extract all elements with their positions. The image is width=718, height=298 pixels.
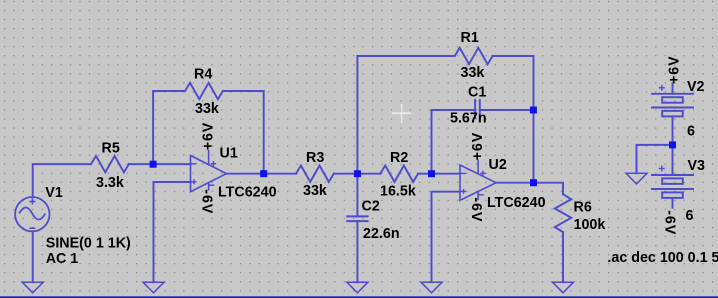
capacitor C1 [474, 100, 476, 118]
U1 non-inverting input marker [192, 181, 197, 183]
wire R2 to node D [418, 173, 431, 175]
svg-text:U1: U1 [220, 146, 238, 162]
ground V1 [22, 173, 647, 292]
svg-text:16.5k: 16.5k [380, 183, 416, 199]
wire feedback column C1 node to U2 output node E [533, 110, 535, 183]
resistor R1 [455, 48, 493, 64]
svg-text:R4: R4 [194, 67, 212, 83]
resistor R5 [91, 156, 129, 172]
svg-text:AC 1: AC 1 [46, 251, 79, 267]
V1 plus marker [29, 199, 35, 229]
wire R1 left leg from node C [357, 56, 454, 174]
resistor R3 [296, 166, 334, 182]
bottom window border [0, 296, 718, 298]
voltage source V1 [15, 197, 49, 231]
wire V1 bottom lead to ground [32, 231, 34, 282]
svg-text:V3: V3 [688, 158, 706, 174]
svg-text:3.3k: 3.3k [96, 175, 124, 191]
ground supply midpoint [626, 173, 647, 184]
svg-text:C1: C1 [468, 85, 486, 101]
resistor R6 [555, 194, 571, 232]
wire U1 output to node B [227, 173, 264, 175]
wire R3 to node C [334, 173, 358, 175]
svg-text:6: 6 [687, 123, 695, 139]
svg-text:V2: V2 [687, 79, 705, 95]
junction node A [150, 107, 676, 187]
junction node E [530, 179, 537, 186]
junction node C [354, 170, 361, 177]
battery V3 [652, 174, 693, 176]
U2 positive rail marker [480, 172, 485, 174]
wire node C to R2 [357, 173, 380, 175]
wire R4 left leg [153, 91, 185, 164]
wire R1 right leg down feedback column [493, 56, 534, 110]
battery V2 [652, 93, 693, 95]
U2 non-inverting input marker [461, 190, 466, 192]
ground U1 non-inverting [143, 282, 164, 293]
wire node F to midpoint ground [637, 145, 673, 173]
wire node F to V3 plus [672, 145, 674, 175]
svg-text:SINE(0 1 1K): SINE(0 1 1K) [46, 236, 131, 252]
wire V1 top lead to R5 [33, 164, 91, 197]
wire V2 top pin [672, 84, 674, 94]
junction node D [428, 170, 435, 177]
U2 negative rail marker [478, 194, 483, 196]
svg-text:R3: R3 [306, 150, 324, 166]
resistor R4 [185, 83, 223, 99]
svg-text:U2: U2 [489, 157, 507, 173]
svg-text:LTC6240: LTC6240 [218, 185, 277, 201]
wire node A to U1 inverting input [153, 163, 190, 165]
wire node C down to C2 [356, 174, 358, 217]
junction node B [260, 170, 267, 177]
ground R6 [553, 282, 574, 293]
wire R6 to ground [562, 232, 564, 282]
wire U1 non-inverting input to ground [154, 182, 191, 282]
U1 positive rail marker [211, 163, 216, 165]
wire node B to R3 [264, 173, 296, 175]
svg-text:LTC6240: LTC6240 [487, 195, 546, 211]
svg-text:100k: 100k [574, 217, 606, 233]
V1 minus marker [29, 227, 35, 229]
svg-text:R2: R2 [390, 150, 408, 166]
ground U2 non-inverting [421, 282, 442, 293]
svg-text:C2: C2 [362, 198, 380, 214]
U1 inverting input marker [192, 163, 197, 165]
svg-text:R5: R5 [102, 141, 120, 157]
wire node D up to C1 [432, 110, 476, 174]
svg-text:+6V: +6V [666, 55, 682, 84]
U2 inverting input marker [461, 172, 466, 174]
wire C1 to feedback column [480, 109, 534, 111]
svg-text:-6V: -6V [662, 210, 678, 235]
wire U2 non-inverting input to ground [432, 192, 461, 283]
svg-text:R1: R1 [461, 30, 479, 46]
junction node F [669, 141, 676, 148]
svg-text:+6V: +6V [201, 122, 217, 151]
svg-text:33k: 33k [461, 65, 485, 81]
resistor R2 [380, 166, 418, 182]
svg-text:V1: V1 [45, 185, 63, 201]
junction C1 right [530, 107, 537, 114]
wire node E to R6 [534, 183, 564, 195]
V3 plus marker [659, 168, 665, 170]
wire V3 bottom pin [672, 198, 674, 208]
svg-text:+6V: +6V [470, 132, 486, 161]
wire U2 output to node E [496, 182, 534, 184]
capacitor C2 [347, 215, 367, 217]
wire C2 to ground [356, 221, 358, 282]
wire node D to U2 inverting input [432, 173, 461, 175]
svg-text:.ac dec 100 0.1 5: .ac dec 100 0.1 5 [607, 250, 718, 266]
svg-text:6: 6 [686, 208, 694, 224]
svg-text:-6V: -6V [199, 189, 215, 214]
svg-text:-6V: -6V [468, 197, 484, 222]
wire V2 minus to node F [672, 116, 674, 144]
wire R4 right leg to output node B [223, 91, 264, 174]
svg-text:R6: R6 [574, 200, 592, 216]
op-amp U1 [191, 150, 227, 192]
svg-text:33k: 33k [195, 101, 219, 117]
svg-text:5.67n: 5.67n [450, 111, 487, 127]
ground C2 [347, 282, 368, 293]
svg-text:33k: 33k [303, 183, 327, 199]
svg-text:22.6n: 22.6n [363, 226, 400, 242]
wire R5 to node A [129, 163, 153, 165]
U1 negative rail marker [209, 184, 214, 186]
op-amp U2 [460, 160, 496, 201]
V2 plus marker [659, 85, 665, 172]
mouse crosshair cursor [392, 104, 411, 123]
